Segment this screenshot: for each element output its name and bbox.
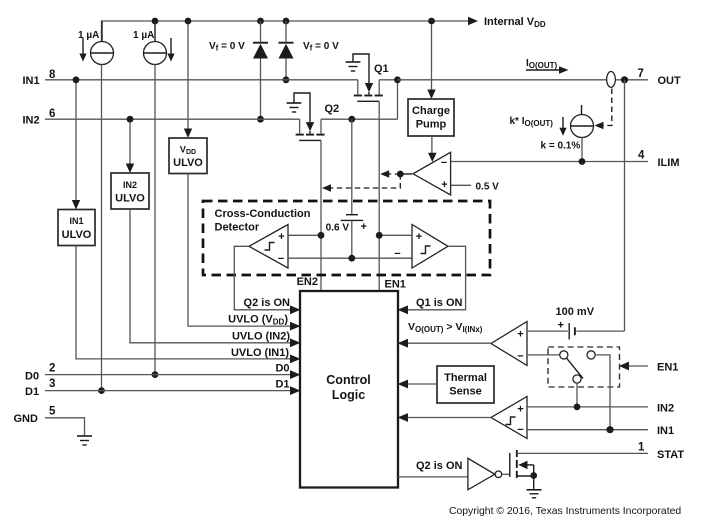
switch contact: right bbox=[587, 351, 595, 359]
wire: OUT net to pin 7 bbox=[398, 79, 649, 81]
comparator: IN2/IN1 hysteresis bbox=[491, 397, 527, 439]
wire: gate drive output node bbox=[400, 173, 412, 175]
wire: common contact to IN2 line bbox=[576, 383, 578, 407]
wire: comparator minus to select switch bbox=[527, 354, 560, 356]
svg-text:D0: D0 bbox=[25, 371, 39, 383]
current sense loop on OUT wire bbox=[607, 72, 616, 88]
svg-text:D0: D0 bbox=[275, 363, 289, 375]
signal label: Q1 is ON bbox=[416, 297, 463, 309]
junction: IN1 line / switch right contact bbox=[606, 426, 613, 433]
comparator: Q1-is-ON detector (right, hysteresis) bbox=[394, 225, 448, 269]
svg-text:Internal VDD: Internal VDD bbox=[484, 16, 546, 29]
pin STAT label bbox=[657, 449, 684, 461]
wire: VO>VI comparator output to control logic bbox=[398, 339, 492, 348]
copyright notice bbox=[449, 506, 681, 517]
wire: 0.5 V reference to plus input bbox=[451, 184, 471, 186]
svg-text:Copyright © 2016, Texas Instru: Copyright © 2016, Texas Instruments Inco… bbox=[449, 506, 681, 517]
junction: 0.6 V battery / minus line bbox=[348, 255, 355, 262]
transistor Q2 (IN2 pass FET) bbox=[296, 80, 398, 141]
wire: IN1 line to Q1 source bbox=[45, 79, 358, 81]
value label: 1 uA (I2) bbox=[133, 30, 154, 41]
svg-text:k = 0.1%: k = 0.1% bbox=[541, 141, 581, 152]
wire: charge pump supply from rail bbox=[427, 24, 435, 99]
wire: Q1 is ON signal to control logic bbox=[398, 246, 466, 314]
wire: dashed gate drive to Q2 gate bbox=[322, 174, 400, 192]
value label: 1 uA (I1) bbox=[78, 30, 99, 41]
transistor: STAT open-drain FET bbox=[510, 450, 648, 478]
svg-text:+: + bbox=[517, 329, 523, 341]
wire: IN1 line bbox=[527, 429, 648, 431]
battery: 0.6 V threshold bbox=[341, 215, 364, 259]
svg-text:D1: D1 bbox=[275, 379, 289, 391]
polarity label: + (100 mV) bbox=[558, 320, 564, 332]
wire: right comparator plus input from EN1 column bbox=[379, 234, 412, 236]
value label: Vf = 0 V (left) bbox=[209, 41, 245, 53]
svg-text:Q2 is ON: Q2 is ON bbox=[244, 297, 291, 309]
wire: charge pump to gate driver bbox=[428, 136, 437, 162]
svg-text:0.6 V: 0.6 V bbox=[326, 223, 350, 234]
svg-text:+: + bbox=[361, 221, 367, 233]
pin IN1 label bbox=[23, 75, 40, 87]
svg-text:EN2: EN2 bbox=[297, 276, 318, 288]
diode D2 (IN2 to internal VDD, Vf = 0 V) bbox=[253, 21, 268, 119]
svg-text:IN2: IN2 bbox=[657, 403, 674, 415]
ground: STAT FET source ground bbox=[527, 476, 542, 498]
signal label: VO(OUT) > VI(INx) bbox=[408, 321, 483, 334]
wire: Internal VDD top rail bbox=[102, 21, 470, 42]
pin EN1 label bbox=[657, 362, 678, 374]
diode D1 (IN1 to internal VDD, Vf = 0 V) bbox=[279, 21, 294, 80]
svg-text:Q2 is ON: Q2 is ON bbox=[416, 460, 463, 472]
arrow: k*IO current direction bbox=[559, 117, 566, 136]
junction: top rail / VDD ULVO branch bbox=[185, 18, 192, 25]
junction: diode D2 / IN2 line bbox=[257, 116, 264, 123]
junction: I1 / D1 line bbox=[98, 387, 105, 394]
battery: 100 mV offset bbox=[527, 323, 625, 340]
ground: Q2 body ground bbox=[287, 93, 310, 122]
inverter: STAT driver bbox=[468, 458, 502, 490]
signal label: UVLO (IN1) bbox=[231, 347, 289, 359]
junction: k source / ILIM net bbox=[579, 158, 586, 165]
svg-text:OUT: OUT bbox=[658, 75, 682, 87]
svg-text:−: − bbox=[441, 157, 447, 169]
junction: STAT FET source / ground bbox=[530, 472, 537, 479]
current source: k*IO(OUT) sense source bbox=[571, 105, 594, 162]
wire: dashed current-sense feedback to k source bbox=[595, 89, 612, 130]
arrowhead: UVLO(VDD) into control logic bbox=[290, 322, 301, 331]
value label: Vf = 0 V (right) bbox=[303, 41, 339, 53]
signal label: UVLO (IN2) bbox=[232, 331, 290, 343]
arrow: I1 current direction bbox=[79, 38, 86, 62]
junction: top rail / current source I2 bbox=[152, 18, 159, 25]
wire: IN2 line bbox=[527, 406, 648, 408]
pin 3 number bbox=[49, 378, 55, 390]
svg-text:IN1: IN1 bbox=[657, 425, 674, 437]
junction: I2 / D0 line bbox=[152, 371, 159, 378]
wire: shared minus line (0.6 V node) bbox=[288, 257, 412, 259]
block: Control Logic bbox=[300, 291, 398, 488]
arrow: I2 current direction bbox=[167, 38, 174, 62]
wire: Q2 drain sense to 0.6V battery bbox=[351, 119, 353, 214]
svg-text:Vf = 0 V: Vf = 0 V bbox=[209, 41, 245, 53]
switch contact: common bbox=[573, 375, 581, 383]
ground: GND pin ground symbol bbox=[77, 436, 92, 445]
svg-text:Pump: Pump bbox=[416, 119, 447, 131]
svg-text:+: + bbox=[416, 231, 422, 243]
value label: 0.6 V bbox=[326, 223, 350, 234]
svg-text:UVLO (IN1): UVLO (IN1) bbox=[231, 347, 289, 359]
signal label: Q2 is ON (STAT) bbox=[416, 460, 463, 472]
wire: VDD ULVO input from rail bbox=[184, 24, 192, 138]
wire: IN2 ULVO input bbox=[126, 122, 134, 173]
svg-text:6: 6 bbox=[49, 108, 55, 120]
wire: Q2 gate / EN2 column bbox=[320, 140, 322, 291]
svg-text:IN2: IN2 bbox=[123, 180, 137, 190]
comparator: VO(OUT) > VI(INx) bbox=[491, 322, 527, 366]
svg-text:IN1: IN1 bbox=[69, 216, 83, 226]
svg-text:+: + bbox=[278, 231, 284, 243]
svg-text:Q1 is ON: Q1 is ON bbox=[416, 297, 463, 309]
block: IN2 ULVO bbox=[111, 173, 149, 209]
block: Thermal Sense bbox=[437, 366, 494, 403]
svg-text:5: 5 bbox=[49, 406, 56, 418]
pin 7 number bbox=[638, 68, 644, 80]
signal label: D0 bbox=[275, 363, 289, 375]
switch: input select (dashed box) bbox=[548, 347, 620, 387]
wire: inverter to STAT FET gate bbox=[502, 473, 510, 475]
pin 1 number bbox=[638, 442, 645, 454]
junction: EN1 column / right comparator plus bbox=[376, 232, 383, 239]
wire: IN comparator output to control logic bbox=[398, 413, 492, 422]
svg-text:STAT: STAT bbox=[657, 449, 684, 461]
junction: gate drive node bbox=[397, 171, 404, 178]
pin IN2 label bbox=[23, 115, 40, 127]
svg-text:UVLO (IN2): UVLO (IN2) bbox=[232, 331, 290, 343]
signal label: D1 bbox=[275, 379, 289, 391]
block: IN1 ULVO bbox=[58, 210, 95, 246]
svg-text:2: 2 bbox=[49, 363, 55, 375]
junction: IN2 line / IN2 ULVO branch bbox=[127, 116, 134, 123]
net label: EN2 bbox=[297, 276, 318, 288]
pin D1 label bbox=[25, 386, 39, 398]
block: VDD ULVO bbox=[169, 138, 207, 174]
pin ILIM label bbox=[658, 157, 680, 169]
wire: GND pin to ground bbox=[45, 418, 85, 436]
junction: top rail / diode D1 cathode bbox=[283, 18, 290, 25]
transistor Q1 label bbox=[374, 63, 389, 75]
wire: Q1 gate / EN1 column bbox=[378, 101, 380, 291]
wire: I2 to D0 line bbox=[154, 65, 156, 375]
svg-text:IN1: IN1 bbox=[23, 75, 40, 87]
svg-text:EN1: EN1 bbox=[385, 279, 406, 291]
svg-text:Sense: Sense bbox=[449, 386, 481, 398]
op-amp: ILIM gate driver amplifier bbox=[413, 152, 451, 195]
svg-text:ULVO: ULVO bbox=[62, 229, 92, 241]
svg-text:ULVO: ULVO bbox=[173, 157, 203, 169]
wire: IN2 line to Q2 source bbox=[45, 118, 300, 120]
svg-text:Thermal: Thermal bbox=[444, 372, 487, 384]
svg-text:1 µA: 1 µA bbox=[133, 30, 154, 41]
svg-text:IN2: IN2 bbox=[23, 115, 40, 127]
signal label: Q2 is ON (left) bbox=[244, 297, 291, 309]
value label: 0.5 V bbox=[476, 182, 500, 193]
pin 2 number bbox=[49, 363, 55, 375]
wire: Q2 is ON to STAT inverter bbox=[398, 476, 468, 478]
svg-text:D1: D1 bbox=[25, 386, 39, 398]
comparator: Q2-is-ON detector (left, hysteresis) bbox=[249, 225, 288, 269]
junction: IN2 line / switch common bbox=[574, 404, 581, 411]
svg-text:GND: GND bbox=[14, 413, 39, 425]
wire: Q2 is ON signal to control logic bbox=[234, 246, 300, 314]
svg-text:+: + bbox=[517, 404, 523, 416]
svg-text:IO(OUT): IO(OUT) bbox=[526, 58, 558, 70]
svg-text:1: 1 bbox=[638, 442, 645, 454]
svg-text:EN1: EN1 bbox=[657, 362, 678, 374]
signal label: UVLO (VDD) bbox=[228, 314, 288, 327]
wire: I1 to D1 line bbox=[101, 65, 103, 391]
junction: diode D1 / IN1 line bbox=[283, 76, 290, 83]
net label: IO(OUT) with arrow bbox=[526, 58, 569, 74]
block: Cross-Conduction Detector (dashed) bbox=[203, 201, 490, 275]
svg-text:Control: Control bbox=[326, 373, 370, 387]
wire: dashed gate drive to Q1 gate bbox=[380, 170, 400, 178]
wire: IN2 ULVO output to UVLO(IN2) input bbox=[130, 209, 290, 342]
svg-text:k* IO(OUT): k* IO(OUT) bbox=[510, 116, 554, 128]
svg-text:−: − bbox=[517, 351, 523, 363]
junction: OUT / feedback branch bbox=[621, 76, 628, 83]
wire: Thermal Sense to control logic bbox=[398, 380, 438, 389]
pin IN2 label (right) bbox=[657, 403, 674, 415]
junction: Q2 drain sense tap bbox=[348, 116, 355, 123]
svg-text:−: − bbox=[517, 424, 523, 436]
switch contact: left bbox=[560, 351, 568, 359]
switch lever bbox=[566, 358, 583, 379]
pin 4 number bbox=[638, 150, 645, 162]
wire: IN1 ULVO output to UVLO(IN1) input bbox=[76, 246, 290, 359]
svg-text:4: 4 bbox=[638, 150, 645, 162]
svg-text:VO(OUT) > VI(INx): VO(OUT) > VI(INx) bbox=[408, 321, 483, 334]
svg-text:−: − bbox=[278, 253, 284, 265]
pin GND label bbox=[14, 413, 39, 425]
pin OUT label bbox=[658, 75, 682, 87]
value label: k* IO(OUT) bbox=[510, 116, 554, 128]
pin D0 label bbox=[25, 371, 39, 383]
junction: EN2 column / left comparator plus bbox=[318, 232, 325, 239]
wire: left comparator plus input to EN2 column bbox=[288, 234, 321, 236]
polarity label: + (0.6 V) bbox=[361, 221, 367, 233]
wire: EN1 pin with arrowhead to switch bbox=[619, 362, 648, 371]
junction: IN1 line / IN1 ULVO branch bbox=[73, 76, 80, 83]
wire: right contact to IN1 line bbox=[595, 355, 610, 430]
transistor Q2 label bbox=[325, 103, 340, 115]
svg-text:0.5 V: 0.5 V bbox=[476, 182, 500, 193]
pin 5 number bbox=[49, 406, 56, 418]
wire: VDD ULVO output to UVLO(VDD) input bbox=[188, 174, 290, 326]
wire: OUT feedback down to 100 mV comparator bbox=[624, 80, 626, 331]
svg-text:100 mV: 100 mV bbox=[556, 306, 595, 318]
net label: Internal VDD bbox=[484, 16, 546, 29]
svg-text:Q1: Q1 bbox=[374, 63, 389, 75]
block: Charge Pump bbox=[408, 99, 454, 136]
arrowhead: UVLO(IN1) into control logic bbox=[290, 355, 301, 364]
arrowhead: Internal VDD bbox=[468, 17, 478, 25]
current source I2 (1 uA from IN2 rail) bbox=[144, 24, 167, 65]
net label: EN1 bbox=[385, 279, 406, 291]
svg-text:1 µA: 1 µA bbox=[78, 30, 99, 41]
wire: D1 line to control logic bbox=[45, 386, 301, 395]
transistor Q1 (IN1 pass FET) bbox=[354, 80, 398, 102]
svg-text:+: + bbox=[558, 320, 564, 332]
junction: Q1/Q2 drains at OUT net bbox=[394, 76, 401, 83]
junction: top rail / diode D2 cathode bbox=[257, 18, 264, 25]
svg-text:Cross-Conduction: Cross-Conduction bbox=[215, 208, 311, 220]
svg-text:ILIM: ILIM bbox=[658, 157, 680, 169]
svg-text:−: − bbox=[394, 248, 400, 260]
value label: 100 mV bbox=[556, 306, 595, 318]
pin IN1 label (right) bbox=[657, 425, 674, 437]
pin 8 number bbox=[49, 69, 56, 81]
svg-text:+: + bbox=[441, 179, 447, 191]
svg-text:UVLO (VDD): UVLO (VDD) bbox=[228, 314, 288, 327]
svg-text:Logic: Logic bbox=[332, 388, 365, 402]
current source I1 (1 uA from IN1 rail) bbox=[91, 21, 114, 65]
svg-text:Vf = 0 V: Vf = 0 V bbox=[303, 41, 339, 53]
svg-text:7: 7 bbox=[638, 68, 644, 80]
svg-text:Charge: Charge bbox=[412, 105, 450, 117]
ground: Q1 body ground bbox=[346, 54, 369, 83]
junction: top rail / charge pump branch bbox=[428, 18, 435, 25]
wire: ILIM net (minus input to pin 4) bbox=[451, 161, 648, 163]
pin 6 number bbox=[49, 108, 55, 120]
wire: IN1 ULVO input bbox=[72, 83, 80, 210]
value label: k = 0.1% bbox=[541, 141, 581, 152]
wire: D0 line to control logic bbox=[45, 370, 301, 379]
arrowhead: UVLO(IN2) into control logic bbox=[290, 338, 301, 347]
svg-text:Detector: Detector bbox=[215, 222, 260, 234]
svg-text:3: 3 bbox=[49, 378, 55, 390]
svg-text:ULVO: ULVO bbox=[115, 193, 145, 205]
svg-text:Q2: Q2 bbox=[325, 103, 340, 115]
